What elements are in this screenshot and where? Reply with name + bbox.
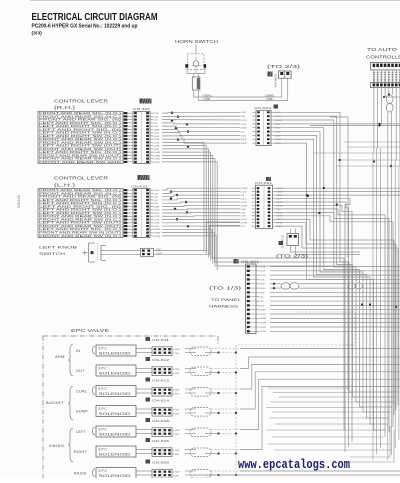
svg-text:EPC: EPC (99, 448, 108, 452)
svg-text:0.85WG: 0.85WG (203, 94, 212, 97)
svg-text:0.5BR: 0.5BR (259, 310, 265, 312)
svg-text:0.5LW: 0.5LW (259, 327, 266, 329)
svg-text:0.5Y: 0.5Y (153, 197, 158, 199)
svg-text:0.5LR: 0.5LR (241, 124, 247, 126)
svg-text:0.5LR: 0.5LR (241, 219, 247, 221)
svg-text:SOLENOID: SOLENOID (99, 392, 132, 396)
svg-text:0.5YB: 0.5YB (241, 202, 247, 204)
svg-text:0.75B: 0.75B (173, 454, 179, 456)
svg-text:EPC: EPC (99, 469, 108, 473)
svg-text:0.5YR: 0.5YR (153, 216, 159, 218)
svg-text:EPC: EPC (99, 407, 108, 411)
svg-text:0.75W: 0.75W (173, 390, 180, 392)
svg-text:0.5R: 0.5R (241, 116, 246, 118)
svg-text:CN-K04: CN-K04 (254, 106, 271, 110)
svg-text:(TO 2/3): (TO 2/3) (267, 64, 301, 69)
svg-text:0.75B: 0.75B (173, 353, 179, 355)
svg-text:0.5YW: 0.5YW (153, 159, 160, 161)
svg-text:(TO 1/3): (TO 1/3) (209, 286, 242, 291)
svg-text:CONTROLLE: CONTROLLE (366, 55, 400, 60)
svg-text:CN-601: CN-601 (241, 260, 259, 264)
svg-text:0.5YB: 0.5YB (153, 223, 159, 225)
svg-text:0.5YG: 0.5YG (259, 275, 265, 277)
svg-text:DUMP: DUMP (76, 410, 88, 414)
svg-text:0.75W: 0.75W (173, 410, 180, 412)
svg-text:0.5GW: 0.5GW (153, 152, 161, 154)
svg-text:0.5RW: 0.5RW (153, 233, 161, 235)
svg-text:LEFT KNOB: LEFT KNOB (39, 245, 78, 250)
svg-text:0.5LG: 0.5LG (153, 210, 159, 212)
svg-text:0.5G: 0.5G (153, 116, 158, 118)
svg-text:0.5LG: 0.5LG (153, 133, 159, 135)
svg-text:RIGHT: RIGHT (74, 450, 88, 454)
svg-text:SWING: SWING (49, 444, 64, 448)
svg-text:(L.H.): (L.H.) (54, 183, 76, 188)
svg-text:0.5GL: 0.5GL (241, 216, 248, 218)
svg-text:0.5RW: 0.5RW (259, 318, 267, 320)
svg-text:EPC VALVE: EPC VALVE (71, 328, 109, 333)
svg-text:0.5YW: 0.5YW (259, 331, 266, 333)
svg-text:0.5RW: 0.5RW (153, 155, 161, 157)
svg-text:(TO 2/3): (TO 2/3) (276, 254, 309, 259)
svg-text:CN-615: CN-615 (152, 439, 170, 443)
svg-text:TO AUTO: TO AUTO (367, 47, 398, 52)
svg-text:0.5LW: 0.5LW (241, 143, 248, 145)
svg-text:0.5YR: 0.5YR (259, 314, 265, 316)
svg-text:0.5YG: 0.5YG (153, 219, 159, 221)
svg-text:CURL: CURL (76, 390, 87, 394)
svg-text:RAISE: RAISE (74, 472, 87, 476)
svg-text:0.5GL: 0.5GL (259, 288, 266, 290)
svg-text:0.5GW: 0.5GW (259, 323, 267, 325)
svg-text:0.5LW: 0.5LW (241, 192, 248, 194)
svg-text:0.5GW: 0.5GW (153, 229, 161, 231)
svg-text:(R.H.): (R.H.) (54, 105, 76, 110)
svg-text:CN-613: CN-613 (152, 379, 170, 383)
svg-text:SWITCH: SWITCH (39, 251, 65, 256)
svg-text:SOLENOID: SOLENOID (99, 433, 132, 437)
svg-text:CN-608: CN-608 (152, 461, 170, 465)
svg-text:0.5W: 0.5W (156, 252, 162, 255)
svg-text:0.5YR: 0.5YR (153, 139, 159, 141)
svg-text:0.85B: 0.85B (204, 98, 211, 101)
svg-text:0.5RW: 0.5RW (241, 205, 249, 207)
svg-text:0.5BR: 0.5BR (153, 129, 159, 131)
svg-text:0.5R: 0.5R (153, 126, 158, 128)
svg-text:CONTROL LEVER: CONTROL LEVER (54, 176, 108, 181)
svg-text:0.75W: 0.75W (173, 430, 180, 432)
svg-text:EPC: EPC (99, 387, 108, 391)
svg-text:0.5YW: 0.5YW (153, 236, 160, 238)
svg-text:ARM: ARM (55, 355, 65, 359)
svg-text:0.5YW: 0.5YW (241, 223, 248, 225)
svg-text:CN-614: CN-614 (152, 399, 170, 403)
svg-text:0.75B: 0.75B (173, 373, 179, 375)
svg-text:0.75B: 0.75B (173, 394, 179, 396)
svg-text:0.85WG: 0.85WG (265, 94, 274, 97)
svg-text:0.75W: 0.75W (173, 472, 180, 474)
svg-text:0.5LG: 0.5LG (241, 198, 247, 200)
svg-text:EPC: EPC (99, 367, 108, 371)
svg-text:0.75B: 0.75B (173, 434, 179, 436)
svg-text:CN-K01: CN-K01 (255, 181, 272, 185)
svg-text:9JA428: 9JA428 (17, 195, 21, 208)
svg-text:0.5Y: 0.5Y (259, 301, 264, 303)
svg-text:SOLENOID: SOLENOID (99, 372, 132, 376)
svg-text:CN-618: CN-618 (152, 419, 170, 423)
svg-text:0.5YG: 0.5YG (153, 142, 159, 144)
svg-text:BUCKET: BUCKET (46, 401, 65, 405)
svg-text:0.5GL: 0.5GL (241, 135, 248, 137)
svg-text:0.85B: 0.85B (266, 98, 273, 101)
svg-text:0.5LR: 0.5LR (241, 139, 247, 141)
svg-text:0.5LR: 0.5LR (153, 226, 159, 228)
svg-text:ELECTRICAL CIRCUIT DIAGRAM: ELECTRICAL CIRCUIT DIAGRAM (32, 12, 158, 23)
svg-text:0.5Y: 0.5Y (153, 120, 158, 122)
svg-text:SOLENOID: SOLENOID (99, 352, 132, 356)
svg-text:0.75W: 0.75W (173, 369, 180, 371)
svg-text:IN: IN (76, 349, 80, 353)
svg-text:SOLENOID: SOLENOID (99, 412, 132, 416)
svg-text:0.75W: 0.75W (173, 450, 180, 452)
svg-text:PC200-6 HYPER GX Serial No.: 1: PC200-6 HYPER GX Serial No.: 102229 and … (32, 24, 138, 30)
svg-text:0.5G: 0.5G (153, 193, 158, 195)
svg-text:SOLENOID: SOLENOID (99, 453, 132, 457)
svg-text:0.75W: 0.75W (173, 349, 180, 351)
svg-text:0.5LW: 0.5LW (153, 162, 160, 164)
svg-text:SOLENOID: SOLENOID (99, 474, 132, 478)
svg-text:HORN SWITCH: HORN SWITCH (175, 39, 218, 44)
svg-text:www.epcatalogs.com: www.epcatalogs.com (238, 457, 350, 472)
svg-text:0.5GW: 0.5GW (241, 188, 249, 190)
svg-text:0.5BR: 0.5BR (153, 206, 159, 208)
svg-text:0.5LW: 0.5LW (241, 128, 248, 130)
svg-text:CONTROL LEVER: CONTROL LEVER (54, 99, 108, 104)
svg-text:0.5YB: 0.5YB (153, 146, 159, 148)
svg-text:CN-W23: CN-W23 (274, 74, 278, 87)
svg-text:0.5LG: 0.5LG (259, 271, 265, 273)
svg-text:HARNESS: HARNESS (209, 304, 239, 309)
svg-text:TO PANEL: TO PANEL (211, 297, 242, 302)
svg-text:0.5R: 0.5R (259, 292, 264, 294)
svg-text:0.75L: 0.75L (259, 279, 265, 281)
svg-text:CN-611: CN-611 (152, 338, 170, 342)
svg-text:CN-612: CN-612 (152, 358, 170, 362)
svg-text:0.5R: 0.5R (241, 212, 246, 214)
svg-text:0.5Y: 0.5Y (241, 226, 246, 228)
svg-text:0.5G: 0.5G (259, 305, 264, 307)
svg-text:0.75B: 0.75B (173, 476, 179, 478)
svg-text:0.5YB: 0.5YB (259, 266, 265, 268)
svg-text:0.5LR: 0.5LR (153, 149, 159, 151)
svg-text:LEFT: LEFT (76, 430, 87, 434)
svg-text:OUT: OUT (76, 369, 85, 373)
svg-text:EPC: EPC (99, 347, 108, 351)
svg-text:0.75B: 0.75B (173, 414, 179, 416)
svg-text:CN-422: CN-422 (133, 107, 150, 111)
svg-text:0.5GL: 0.5GL (153, 136, 160, 138)
svg-text:0.5GL: 0.5GL (153, 213, 160, 215)
svg-text:CN-K21: CN-K21 (131, 185, 148, 189)
svg-text:0.5R: 0.5R (153, 203, 158, 205)
svg-text:(3/3): (3/3) (32, 30, 43, 36)
svg-text:0.5YR: 0.5YR (241, 120, 247, 122)
svg-text:EPC: EPC (99, 428, 108, 432)
